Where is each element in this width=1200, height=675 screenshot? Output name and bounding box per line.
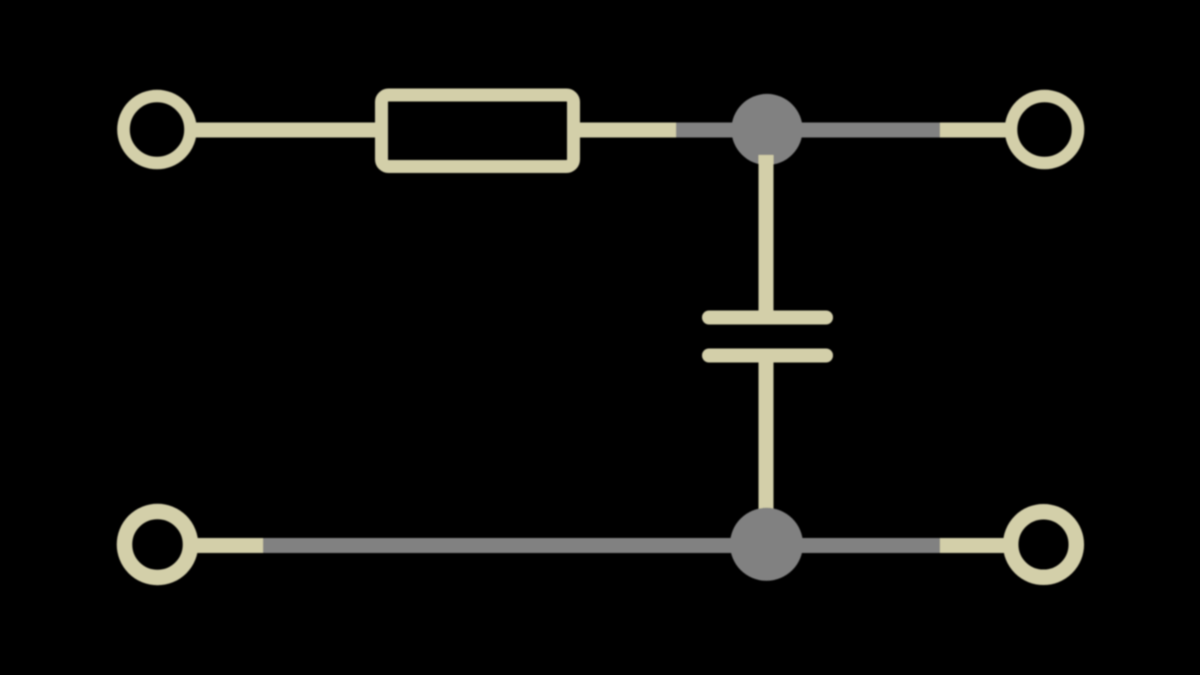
wire T1 to resistor bbox=[188, 123, 382, 138]
wire T3 to node B (gray part) bbox=[263, 538, 767, 553]
terminal T4 (bottom-right) bbox=[1011, 512, 1077, 578]
capacitor C1 bottom plate bbox=[709, 349, 826, 363]
wire resistor to node A (cream part) bbox=[573, 123, 676, 138]
wire node B to T4 (cream part) bbox=[940, 538, 1012, 553]
terminal T3 (bottom-left) bbox=[125, 512, 191, 578]
terminal T1 (top-left input) bbox=[124, 96, 191, 163]
wire node A to capacitor bbox=[759, 155, 774, 311]
node B (bottom junction) bbox=[730, 508, 803, 581]
resistor R1 bbox=[382, 95, 574, 167]
wire capacitor to node B bbox=[759, 362, 774, 545]
wire resistor to node A (gray part) bbox=[676, 123, 767, 138]
wire node B to T4 (gray part) bbox=[766, 538, 940, 553]
node A (top junction) bbox=[731, 94, 802, 165]
wire node A to output (gray part) bbox=[767, 123, 940, 138]
terminal T2 (top-right output) bbox=[1011, 96, 1078, 163]
capacitor C1 top plate bbox=[709, 311, 826, 325]
wire node A to output (cream part) bbox=[940, 123, 1012, 138]
wire T3 to node B (cream part) bbox=[190, 538, 263, 553]
